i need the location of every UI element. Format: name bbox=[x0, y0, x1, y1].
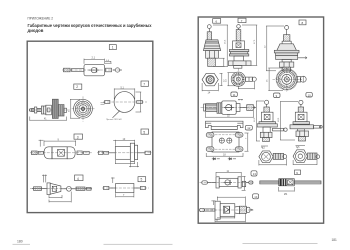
svg-text:5: 5 bbox=[143, 130, 145, 134]
svg-text:3: 3 bbox=[77, 135, 79, 139]
svg-text:Припой ПОС-40: Припой ПОС-40 bbox=[106, 118, 122, 121]
svg-text:5: 5 bbox=[141, 178, 143, 182]
svg-text:диодов: диодов bbox=[28, 28, 44, 33]
svg-text:ПРИЛОЖЕНИЕ 2: ПРИЛОЖЕНИЕ 2 bbox=[28, 17, 54, 21]
svg-text:2,1: 2,1 bbox=[92, 56, 96, 60]
svg-text:2: 2 bbox=[76, 85, 78, 89]
svg-text:13: 13 bbox=[253, 172, 257, 176]
svg-text:7: 7 bbox=[143, 82, 145, 86]
svg-text:181: 181 bbox=[332, 238, 338, 242]
svg-text:12: 12 bbox=[247, 126, 251, 130]
svg-text:11: 11 bbox=[233, 93, 236, 97]
svg-text:180: 180 bbox=[17, 240, 23, 244]
svg-text:10: 10 bbox=[308, 93, 312, 97]
svg-text:Габаритные чертежи корпусов от: Габаритные чертежи корпусов отечественны… bbox=[28, 23, 153, 28]
svg-text:4: 4 bbox=[77, 177, 79, 181]
svg-text:14: 14 bbox=[254, 195, 258, 199]
svg-text:1: 1 bbox=[112, 46, 114, 50]
